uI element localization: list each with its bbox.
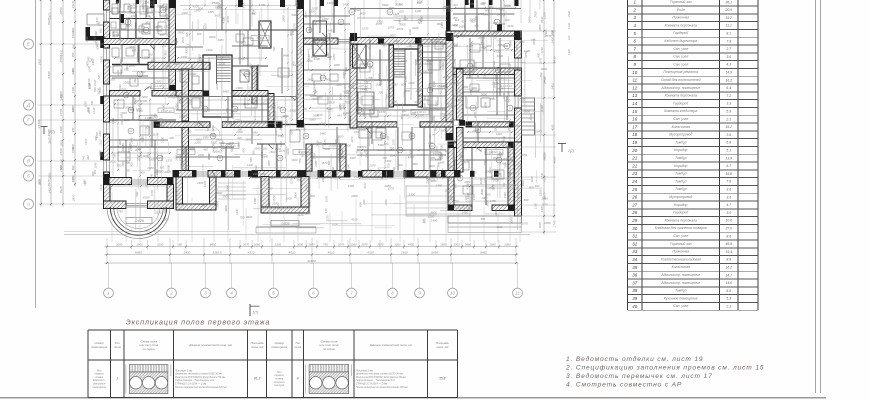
- svg-text:Администр. помещение: Администр. помещение: [660, 273, 700, 277]
- svg-text:2080: 2080: [312, 153, 316, 160]
- svg-text:6460: 6460: [480, 251, 487, 255]
- elevator shaft E2a: [313, 21, 327, 56]
- svg-text:300: 300: [132, 144, 137, 148]
- svg-text:2775: 2775: [494, 74, 498, 81]
- svg-text:3.6: 3.6: [726, 195, 731, 199]
- svg-text:2600: 2600: [294, 192, 298, 200]
- svg-text:2080: 2080: [112, 31, 116, 39]
- svg-text:1280: 1280: [194, 8, 201, 12]
- svg-text:900: 900: [483, 178, 487, 183]
- svg-text:1570: 1570: [391, 139, 395, 145]
- svg-text:3430: 3430: [184, 251, 191, 255]
- svg-text:1300: 1300: [170, 79, 174, 85]
- svg-text:Тамбур: Тамбур: [675, 289, 687, 293]
- svg-text:2080: 2080: [332, 53, 336, 61]
- left dimension chain x=63: [62, 0, 64, 207]
- svg-text:34: 34: [632, 257, 637, 262]
- svg-text:820: 820: [399, 9, 404, 13]
- svg-text:2600: 2600: [130, 137, 134, 144]
- svg-text:1480: 1480: [235, 208, 239, 215]
- svg-text:1000: 1000: [401, 59, 408, 63]
- svg-text:8.6: 8.6: [726, 234, 731, 238]
- axis bubble 11: [513, 288, 523, 298]
- hall wall x=350: [350, 38, 357, 129]
- svg-text:81.3: 81.3: [254, 377, 260, 381]
- svg-text:1200: 1200: [344, 143, 351, 147]
- svg-text:1500: 1500: [435, 145, 439, 151]
- extension line texture inside plan: [466, 98, 468, 123]
- svg-text:1400: 1400: [206, 48, 213, 52]
- svg-text:1570: 1570: [388, 25, 395, 29]
- svg-text:750: 750: [276, 204, 280, 209]
- axis bubble 4: [227, 288, 237, 298]
- room number circles: [137, 71, 143, 77]
- svg-text:900: 900: [71, 67, 75, 72]
- svg-text:2080: 2080: [155, 168, 159, 175]
- svg-text:1435: 1435: [497, 12, 503, 16]
- svg-text:398: 398: [177, 243, 182, 247]
- svg-text:1570: 1570: [541, 203, 548, 207]
- svg-text:2430: 2430: [540, 16, 544, 24]
- svg-text:4310: 4310: [248, 251, 255, 255]
- svg-text:10.6: 10.6: [725, 219, 732, 223]
- svg-text:пола: пола: [114, 345, 121, 349]
- svg-text:1510: 1510: [95, 17, 99, 24]
- svg-text:2080: 2080: [415, 89, 422, 93]
- partitions in top-left block: [119, 0, 121, 39]
- svg-text:39: 39: [632, 296, 637, 301]
- svg-text:5460: 5460: [223, 89, 230, 93]
- svg-text:1570: 1570: [379, 110, 386, 114]
- svg-text:5.1: 5.1: [726, 149, 731, 153]
- svg-text:Мусоропровод: Мусоропровод: [669, 133, 692, 137]
- axis bubble Б: [24, 171, 34, 181]
- svg-text:1480: 1480: [291, 29, 295, 36]
- svg-text:32: 32: [632, 241, 637, 246]
- svg-text:160: 160: [295, 63, 300, 67]
- axis bubble 6: [309, 288, 319, 298]
- svg-text:1500: 1500: [343, 70, 347, 76]
- svg-text:6300: 6300: [47, 71, 51, 78]
- window in bottom wall: [306, 171, 318, 173]
- svg-text:16.2: 16.2: [725, 266, 732, 270]
- svg-text:2850: 2850: [87, 107, 91, 115]
- svg-text:3600: 3600: [246, 215, 253, 219]
- svg-text:1400: 1400: [253, 198, 257, 205]
- svg-text:2670: 2670: [47, 179, 51, 187]
- svg-text:2290: 2290: [156, 243, 164, 247]
- svg-text:1000: 1000: [319, 122, 326, 126]
- svg-text:900: 900: [310, 44, 314, 49]
- svg-text:1510: 1510: [92, 107, 96, 114]
- svg-text:2080: 2080: [333, 63, 340, 67]
- svg-text:3600: 3600: [481, 93, 487, 97]
- svg-text:1400: 1400: [343, 2, 350, 6]
- svg-text:2500: 2500: [308, 9, 316, 13]
- svg-text:4500: 4500: [494, 49, 500, 53]
- svg-text:5460: 5460: [327, 29, 334, 33]
- svg-text:2900: 2900: [492, 60, 496, 68]
- svg-text:1570: 1570: [508, 172, 512, 178]
- svg-text:1550: 1550: [108, 77, 115, 81]
- svg-text:2600: 2600: [439, 154, 443, 161]
- svg-text:1300: 1300: [327, 1, 334, 5]
- right dimension chain x=544: [543, 0, 545, 235]
- svg-text:1090: 1090: [93, 162, 97, 169]
- svg-text:контура: контура: [274, 384, 285, 387]
- svg-text:160: 160: [403, 15, 407, 20]
- svg-text:1000: 1000: [131, 14, 138, 18]
- svg-text:2080: 2080: [483, 102, 487, 109]
- svg-text:1470: 1470: [59, 49, 63, 56]
- svg-text:1410: 1410: [163, 41, 167, 47]
- svg-text:4000: 4000: [551, 124, 555, 131]
- svg-text:3.6: 3.6: [726, 55, 731, 59]
- svg-text:2300: 2300: [184, 47, 188, 55]
- svg-text:900: 900: [476, 73, 480, 78]
- svg-text:1400: 1400: [524, 49, 531, 53]
- svg-text:пола, м2: пола, м2: [251, 345, 263, 349]
- svg-text:2080: 2080: [137, 154, 141, 161]
- vertical wall x=169 lower: [169, 45, 176, 91]
- svg-text:2080: 2080: [481, 43, 485, 50]
- svg-text:1300: 1300: [487, 150, 493, 154]
- svg-text:3.3: 3.3: [726, 102, 731, 106]
- right hall east rooms: [418, 51, 446, 53]
- svg-text:2080: 2080: [480, 196, 487, 200]
- svg-text:660: 660: [86, 155, 90, 160]
- svg-text:3000: 3000: [155, 25, 162, 29]
- axis bubble Е: [24, 39, 34, 49]
- svg-text:3030: 3030: [254, 165, 258, 171]
- svg-text:1410: 1410: [116, 69, 120, 75]
- svg-text:750: 750: [449, 195, 453, 200]
- svg-text:300: 300: [386, 135, 390, 140]
- svg-text:1410: 1410: [149, 0, 153, 6]
- axis bubble Г: [24, 115, 34, 125]
- svg-text:30: 30: [632, 226, 637, 231]
- svg-text:2080: 2080: [238, 41, 246, 45]
- svg-text:Гардероб: Гардероб: [673, 101, 688, 105]
- svg-text:910: 910: [461, 19, 466, 23]
- svg-text:19: 19: [632, 140, 637, 145]
- svg-text:5460: 5460: [327, 107, 333, 111]
- svg-text:26: 26: [631, 195, 637, 200]
- svg-text:3430: 3430: [431, 251, 438, 255]
- svg-text:1900: 1900: [371, 101, 375, 107]
- svg-text:2: 2: [633, 7, 637, 12]
- svg-text:2080: 2080: [237, 57, 245, 61]
- svg-text:2300: 2300: [409, 41, 413, 49]
- svg-text:1900: 1900: [387, 103, 393, 107]
- svg-text:1000: 1000: [502, 92, 506, 98]
- svg-text:1200: 1200: [125, 16, 132, 20]
- svg-text:640: 640: [346, 164, 350, 169]
- right top rooms piers and clutter: [465, 0, 469, 5]
- svg-text:36: 36: [632, 273, 637, 278]
- axis bubble 7: [347, 288, 357, 298]
- svg-text:1300: 1300: [71, 87, 75, 93]
- left dimension chain x=51: [50, 0, 52, 207]
- partitions inside hall: [357, 79, 393, 81]
- svg-text:11.1: 11.1: [726, 24, 732, 28]
- top rooms partitions: [319, 0, 321, 33]
- svg-text:660: 660: [160, 166, 165, 170]
- svg-text:2080: 2080: [419, 17, 423, 25]
- svg-text:20: 20: [631, 148, 637, 153]
- svg-text:1570: 1570: [362, 26, 369, 30]
- svg-text:2400: 2400: [540, 206, 544, 214]
- window in right wall: [514, 58, 516, 70]
- svg-text:2080: 2080: [124, 106, 131, 110]
- svg-text:1100: 1100: [375, 83, 381, 87]
- svg-text:1000: 1000: [215, 201, 219, 208]
- svg-text:1900: 1900: [429, 164, 435, 168]
- svg-text:3000: 3000: [521, 180, 525, 187]
- floor construction schema drawing: [309, 365, 349, 373]
- svg-text:2070: 2070: [316, 140, 320, 147]
- svg-text:Б: Б: [27, 174, 30, 179]
- svg-text:660: 660: [133, 78, 137, 83]
- svg-text:1000: 1000: [484, 122, 491, 126]
- bottom extension lines: [106, 238, 108, 264]
- svg-text:2080: 2080: [174, 154, 178, 161]
- texture darken pass lines: [493, 33, 495, 98]
- svg-text:40: 40: [632, 304, 637, 309]
- svg-text:460: 460: [445, 150, 450, 154]
- svg-text:700: 700: [272, 46, 276, 51]
- svg-text:1570: 1570: [155, 210, 162, 214]
- svg-text:1510: 1510: [85, 36, 89, 43]
- svg-text:46.9: 46.9: [725, 242, 732, 246]
- svg-text:по серии: по серии: [142, 347, 155, 351]
- svg-text:2.7: 2.7: [725, 47, 731, 51]
- svg-text:1570: 1570: [323, 139, 327, 146]
- steps right-mid: [406, 186, 470, 216]
- svg-text:1080: 1080: [267, 160, 271, 166]
- vertical wall x=169: [169, 0, 176, 45]
- svg-text:2080: 2080: [115, 243, 123, 247]
- svg-text:900: 900: [439, 144, 443, 149]
- section mark 1(7) above title: [249, 304, 251, 316]
- svg-text:3600: 3600: [145, 21, 152, 25]
- svg-text:1090: 1090: [88, 83, 92, 90]
- svg-text:4100: 4100: [141, 5, 145, 12]
- svg-text:5460: 5460: [206, 125, 210, 132]
- svg-text:38: 38: [632, 288, 637, 293]
- svg-text:750: 750: [225, 172, 229, 177]
- svg-text:4100: 4100: [414, 100, 421, 104]
- svg-text:1000: 1000: [281, 15, 285, 22]
- svg-text:2080: 2080: [119, 112, 123, 119]
- svg-text:750: 750: [200, 94, 204, 99]
- svg-text:700: 700: [423, 96, 427, 101]
- svg-text:2670: 2670: [543, 153, 547, 161]
- svg-text:160: 160: [428, 141, 433, 145]
- svg-text:2900: 2900: [494, 209, 498, 217]
- svg-text:640: 640: [369, 66, 374, 70]
- svg-text:980: 980: [71, 52, 75, 57]
- svg-text:37: 37: [632, 280, 637, 285]
- svg-text:13: 13: [632, 93, 637, 98]
- svg-text:2900: 2900: [280, 115, 288, 119]
- svg-text:1570: 1570: [155, 79, 162, 83]
- svg-text:3600: 3600: [294, 0, 298, 6]
- svg-text:Хозяйственная кладовая: Хозяйственная кладовая: [660, 257, 702, 261]
- svg-text:740: 740: [97, 75, 101, 80]
- svg-text:2900: 2900: [175, 103, 179, 111]
- axis bubble А: [24, 199, 34, 209]
- sheet frame left border line: [35, 0, 37, 308]
- svg-text:3460: 3460: [465, 243, 472, 247]
- svg-text:700: 700: [387, 163, 391, 168]
- svg-text:900: 900: [125, 156, 130, 160]
- svg-text:2070: 2070: [242, 243, 250, 247]
- svg-text:5460: 5460: [378, 143, 384, 147]
- left side porch protrusion: [87, 14, 104, 25]
- svg-text:2600: 2600: [215, 138, 222, 142]
- svg-text:1570: 1570: [293, 23, 297, 30]
- svg-text:820: 820: [185, 32, 189, 37]
- svg-text:3000: 3000: [473, 111, 477, 118]
- right dimension chain x=554: [553, 0, 555, 219]
- svg-text:1570: 1570: [272, 195, 276, 202]
- svg-text:900: 900: [72, 43, 76, 48]
- svg-text:2600: 2600: [197, 153, 204, 157]
- svg-text:5460: 5460: [397, 18, 401, 25]
- svg-text:Комната кондитера: Комната кондитера: [664, 109, 697, 113]
- svg-text:Кухонное помещение: Кухонное помещение: [664, 296, 698, 300]
- svg-text:5.9: 5.9: [726, 110, 731, 114]
- svg-text:750: 750: [380, 132, 384, 137]
- svg-text:3000: 3000: [411, 162, 418, 166]
- svg-text:1435: 1435: [208, 10, 215, 14]
- svg-text:5460: 5460: [212, 146, 216, 152]
- svg-text:2080: 2080: [386, 87, 393, 91]
- svg-text:1900: 1900: [350, 156, 356, 160]
- svg-text:Администр. помещение: Администр. помещение: [660, 281, 700, 285]
- svg-text:35: 35: [632, 265, 637, 270]
- sheet frame bottom border line: [0, 397, 826, 399]
- svg-text:1440: 1440: [505, 121, 511, 125]
- svg-text:1550: 1550: [450, 104, 457, 108]
- svg-text:2680: 2680: [439, 243, 447, 247]
- door swing arcs: [132, 96, 140, 104]
- svg-text:2080: 2080: [350, 194, 358, 198]
- svg-text:3000: 3000: [146, 85, 153, 89]
- service shaft left section: [252, 66, 257, 104]
- svg-text:6.4: 6.4: [726, 86, 731, 90]
- svg-text:800: 800: [362, 199, 366, 204]
- right-lower rooms partitions: [357, 149, 446, 151]
- svg-text:4.7: 4.7: [726, 203, 731, 207]
- svg-text:5460: 5460: [439, 85, 445, 89]
- svg-text:2080: 2080: [312, 84, 316, 91]
- svg-text:900: 900: [400, 114, 404, 119]
- svg-text:1570: 1570: [522, 221, 529, 225]
- svg-text:660: 660: [249, 157, 253, 162]
- svg-text:900: 900: [398, 163, 403, 167]
- svg-text:2300: 2300: [445, 9, 453, 13]
- svg-text:660: 660: [298, 149, 302, 154]
- right hall partitions: [357, 59, 393, 61]
- svg-text:3000: 3000: [224, 205, 228, 212]
- svg-text:27: 27: [339, 20, 343, 24]
- extension lines to sheet top: [109, 0, 111, 11]
- svg-text:980: 980: [132, 48, 137, 52]
- svg-text:1060: 1060: [350, 243, 357, 247]
- svg-text:2080: 2080: [498, 151, 502, 158]
- hall wall x=446: [446, 38, 453, 141]
- svg-text:2900: 2900: [534, 11, 538, 19]
- svg-text:900: 900: [126, 5, 130, 10]
- bay window side walls: [104, 185, 111, 207]
- svg-text:2500: 2500: [376, 19, 384, 23]
- svg-text:1000: 1000: [322, 17, 329, 21]
- svg-text:1570: 1570: [388, 187, 395, 191]
- svg-text:1300: 1300: [98, 130, 102, 137]
- axis bubble В: [24, 156, 34, 166]
- svg-text:900: 900: [514, 208, 519, 212]
- svg-text:3600: 3600: [453, 75, 459, 79]
- bottom outer wall right of axis 3: [173, 171, 196, 178]
- svg-text:2300: 2300: [163, 207, 167, 215]
- svg-text:660: 660: [327, 160, 331, 165]
- svg-text:6.6: 6.6: [726, 289, 731, 293]
- svg-text:2600: 2600: [306, 78, 313, 82]
- svg-text:2080: 2080: [463, 180, 471, 184]
- axis bubble Д: [24, 100, 34, 110]
- tambour wall y=205 right: [448, 205, 472, 211]
- svg-text:2070: 2070: [193, 121, 201, 125]
- top-right rooms block: [446, 31, 522, 36]
- top edge thin lines: [350, 8, 521, 10]
- svg-text:700: 700: [268, 112, 272, 117]
- svg-text:1900: 1900: [495, 172, 501, 176]
- svg-text:2070: 2070: [389, 33, 397, 37]
- svg-text:3000: 3000: [538, 222, 542, 229]
- sheet frame right outer border line: [820, 0, 822, 393]
- svg-text:2600: 2600: [208, 35, 216, 39]
- svg-text:1080: 1080: [254, 243, 261, 247]
- svg-text:2080: 2080: [497, 43, 504, 47]
- svg-text:2070: 2070: [360, 243, 368, 247]
- svg-text:4100: 4100: [351, 218, 358, 222]
- svg-text:6450: 6450: [210, 243, 217, 247]
- svg-text:160: 160: [237, 128, 242, 132]
- svg-text:900: 900: [251, 150, 255, 155]
- svg-text:2640: 2640: [389, 153, 397, 157]
- svg-text:Сан. узел: Сан. узел: [673, 55, 688, 59]
- bay label box: [126, 218, 152, 224]
- svg-text:640: 640: [441, 61, 445, 66]
- svg-text:Коридор: Коридор: [674, 164, 687, 168]
- svg-text:1000: 1000: [394, 243, 401, 247]
- svg-text:1090: 1090: [87, 56, 91, 63]
- svg-text:160: 160: [354, 130, 359, 134]
- ground line below building: [64, 234, 530, 236]
- svg-text:Сан. узел: Сан. узел: [673, 304, 688, 308]
- svg-text:по серии: по серии: [323, 347, 336, 351]
- svg-text:2900: 2900: [446, 113, 454, 117]
- svg-text:1200: 1200: [350, 136, 354, 143]
- top strip chain lines: [180, 5, 300, 7]
- svg-text:Фойе: Фойе: [677, 8, 685, 12]
- svg-text:3000: 3000: [332, 223, 339, 227]
- svg-text:29: 29: [631, 218, 637, 223]
- svg-text:2430: 2430: [567, 10, 571, 18]
- svg-text:3600: 3600: [178, 31, 185, 35]
